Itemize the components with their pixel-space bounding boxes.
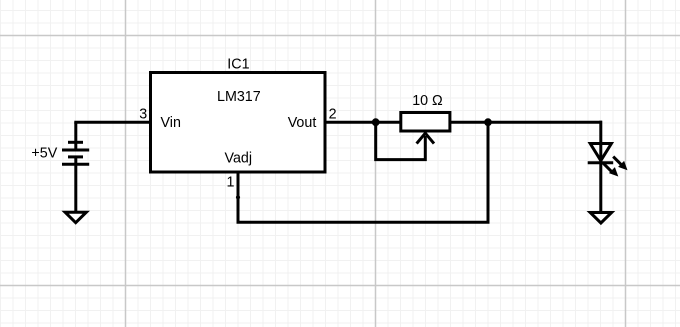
wire LED anode drop — [599, 121, 602, 145]
wire battery positive lead down — [74, 122, 77, 150]
IC1 LM317 regulator body — [151, 73, 326, 173]
ground (left) — [65, 212, 86, 223]
major grid line horizontal y=285.5 — [0, 285, 680, 287]
svg-text:2: 2 — [329, 106, 337, 122]
potentiometer R1 body — [401, 113, 450, 132]
node on Vadj wire — [236, 195, 240, 199]
major grid line horizontal y=35.5 — [0, 35, 680, 37]
ground (right) — [590, 213, 611, 224]
svg-text:Vin: Vin — [161, 115, 181, 131]
LED light arrow 1 — [613, 157, 627, 171]
svg-text:Vadj: Vadj — [225, 150, 253, 166]
potentiometer wiper arrow — [417, 133, 434, 143]
svg-text:Vout: Vout — [288, 115, 317, 131]
node A junction dot — [372, 118, 380, 126]
wire battery top to pin 3 of IC1 — [74, 121, 152, 124]
svg-text:1: 1 — [227, 175, 235, 191]
node B junction dot — [484, 118, 492, 126]
battery V1 plates — [62, 142, 89, 164]
major grid line vertical x=125.5 — [125, 0, 127, 327]
wire pin 2 Vout to potentiometer left — [324, 121, 402, 124]
svg-text:10 Ω: 10 Ω — [412, 93, 443, 109]
wire potentiometer right to LED corner — [448, 121, 602, 124]
LED D1 triangle — [590, 144, 611, 161]
LED D1 cathode bar — [588, 161, 614, 164]
wire wiper loop from node A down to wiper arrow — [376, 122, 426, 159]
wire battery negative lead to ground — [74, 157, 77, 213]
wire LED center through triangle to ground — [599, 143, 602, 213]
svg-text:LM317: LM317 — [217, 89, 261, 105]
major grid line vertical x=625.5 — [625, 0, 627, 327]
svg-text:+5V: +5V — [31, 145, 57, 161]
LED light arrow 2 — [603, 163, 619, 177]
svg-text:3: 3 — [139, 106, 147, 122]
svg-text:IC1: IC1 — [227, 57, 249, 73]
major grid line vertical x=375.5 — [375, 0, 377, 327]
wire Vadj pin 1 down right and up to node B — [238, 122, 488, 222]
